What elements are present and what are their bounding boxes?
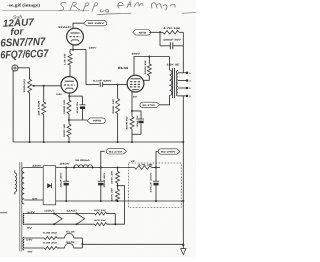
svg-text:-se.gif (image): -se.gif (image) <box>7 3 41 8</box>
svg-text:0.28 2W: 0.28 2W <box>43 242 57 245</box>
svg-text:6FQ7/6CG7: 6FQ7/6CG7 <box>0 48 49 62</box>
svg-text:220K 2W: 220K 2W <box>111 171 114 184</box>
svg-text:220uF 400V: 220uF 400V <box>60 172 63 188</box>
svg-text:220uF 25V: 220uF 25V <box>76 101 79 113</box>
svg-text:240V: 240V <box>60 162 71 165</box>
svg-text:14V: 14V <box>26 238 33 241</box>
svg-text:0.1uF 630V: 0.1uF 630V <box>93 79 112 82</box>
svg-text:4.4V: 4.4V <box>56 93 63 96</box>
svg-text:0V: 0V <box>32 197 38 200</box>
svg-text:B2 245V: B2 245V <box>88 22 105 25</box>
svg-text:3.5K SE: 3.5K SE <box>167 63 180 66</box>
svg-text:0V: 0V <box>27 226 33 229</box>
svg-text:360R 5W: 360R 5W <box>126 115 129 129</box>
svg-text:220R 1W: 220R 1W <box>63 123 66 137</box>
svg-text:136V: 136V <box>88 47 97 50</box>
svg-text:230V: 230V <box>32 165 42 168</box>
svg-text:1.2K 1W: 1.2K 1W <box>64 53 67 66</box>
svg-text:47R 1W: 47R 1W <box>94 209 106 212</box>
svg-text:100R 1W: 100R 1W <box>144 59 147 74</box>
svg-text:EL34: EL34 <box>66 241 75 244</box>
svg-text:4.7K 1W: 4.7K 1W <box>163 27 182 30</box>
svg-text:12AU7: 12AU7 <box>44 209 55 212</box>
svg-text:180R 1W: 180R 1W <box>63 99 66 114</box>
svg-text:12AU7: 12AU7 <box>67 209 78 212</box>
svg-text:220K 1W: 220K 1W <box>112 98 115 114</box>
svg-text:EL34: EL34 <box>66 231 75 234</box>
svg-text:5H 200mA: 5H 200mA <box>75 159 90 162</box>
svg-text:0V: 0V <box>28 251 34 254</box>
svg-text:47R 1W: 47R 1W <box>94 219 106 222</box>
svg-text:1M 1/4W: 1M 1/4W <box>38 99 41 116</box>
svg-text:100uF 25V: 100uF 25V <box>136 115 139 128</box>
svg-text:0.28 2W: 0.28 2W <box>43 231 57 234</box>
svg-text:220K 2W: 220K 2W <box>111 188 114 201</box>
svg-text:0V: 0V <box>133 95 138 98</box>
svg-text:NFB: NFB <box>93 120 101 123</box>
svg-text:B1 275V: B1 275V <box>143 104 156 107</box>
svg-text:NFB: NFB <box>139 31 147 34</box>
svg-text:12AU7: 12AU7 <box>58 26 72 29</box>
svg-text:100uF 400V: 100uF 400V <box>150 171 153 192</box>
svg-text:B1 275V: B1 275V <box>109 150 123 153</box>
svg-text:4.7K 1W: 4.7K 1W <box>138 164 154 167</box>
svg-text:250V: 250V <box>132 52 141 55</box>
svg-text:B2 245V: B2 245V <box>161 151 176 154</box>
svg-text:100uF 50V: 100uF 50V <box>163 38 182 41</box>
svg-text:EL34: EL34 <box>118 66 128 70</box>
svg-text:100K(A): 100K(A) <box>23 79 26 93</box>
svg-text:220uF 400V: 220uF 400V <box>103 172 106 188</box>
